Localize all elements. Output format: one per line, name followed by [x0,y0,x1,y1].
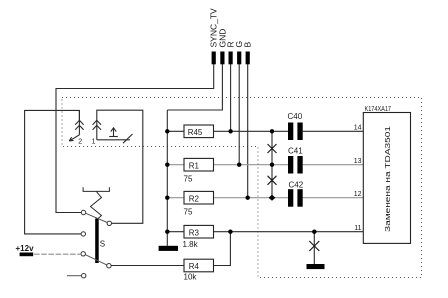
svg-text:R1: R1 [189,161,200,170]
svg-text:B: B [243,41,253,47]
branch wire at node x=272 [271,131,273,197]
wire GND pin to ground bus [167,63,222,110]
switch contact B [107,221,111,225]
ground bus symbol [159,246,178,251]
svg-text:11: 11 [354,225,361,232]
svg-text:14: 14 [354,124,362,131]
svg-text:Заменена на TDA3501: Заменена на TDA3501 [383,126,392,232]
branch wire pin11 to ground [313,232,315,264]
cut mark X on pin11 ground branch [309,241,319,251]
switch S spring bracket [83,187,109,191]
op-amp / IC U1 K174XA17 [363,113,410,244]
switch contact D [81,252,85,256]
svg-text:R3: R3 [189,228,200,237]
capacitor C41 [288,156,293,174]
svg-text:2: 2 [78,138,82,145]
row 13 wire (R1 / C41 / pin13) [167,164,288,166]
svg-text:1.8k: 1.8k [183,240,199,249]
switch S actuator bar [95,219,99,264]
svg-text:75: 75 [184,175,193,184]
dashed module boundary [62,98,422,278]
wire SYNC_TV pin to switch contact A [56,63,214,213]
resistor R2 [184,191,214,204]
node junction dots [165,129,169,133]
symbol 1 (connector contact box) [93,110,143,223]
node diamond junction [269,195,276,201]
cut mark X between C41 and C42 [268,176,277,185]
R4 row wire and riser to row 11 [111,232,230,266]
switch contact C [81,232,85,236]
svg-text:13: 13 [354,158,362,165]
switch moving blade lower [85,255,106,265]
svg-text:C41: C41 [288,147,303,156]
connector pin SYNC_TV [212,52,216,65]
svg-text:R45: R45 [188,128,203,137]
svg-text:S: S [100,240,105,249]
svg-text:C40: C40 [288,112,303,121]
wire from symbol 2 to switch contact C [25,110,82,233]
svg-text:75: 75 [184,208,193,217]
wire R pin down [230,63,232,131]
resistor R4 [184,259,214,272]
ground near pin 11 [307,264,325,269]
connector pin GND [220,52,224,65]
svg-text:10k: 10k [184,273,198,282]
switch contact F [82,274,86,278]
capacitor C40 [288,123,293,141]
row 11 wire (R3 / pin11) [167,231,363,233]
capacitor C42 [288,189,293,207]
wire B pin down [247,63,249,198]
svg-text:R4: R4 [189,262,200,271]
wire +12v to contact D [34,253,81,255]
svg-text:K174XA17: K174XA17 [365,106,392,113]
ground bus vertical [166,110,168,246]
connector pin G [237,52,241,65]
symbol 2 (connector contact with arrow) [69,110,83,140]
wire G pin down [238,63,240,165]
svg-text:1: 1 [92,138,96,145]
resistor R45 [184,125,214,138]
svg-text:+12v: +12v [16,244,35,253]
switch contact A [81,210,85,214]
resistor R1 [184,158,214,171]
resistor R3 [184,225,214,238]
svg-text:R2: R2 [189,194,200,203]
switch moving blade upper [86,213,108,222]
row 12 wire (R2 / C42 / pin12) [167,197,288,199]
stub wire at contact F [67,275,82,277]
cut mark X on branch at boundary [268,144,277,153]
switch contact E [107,264,111,268]
connector pin B [246,52,250,65]
switch S spring zigzag [91,191,102,219]
row 14 wire (R45 / C40 / pin14) [167,130,288,132]
svg-text:C42: C42 [289,180,304,189]
connector pin R [229,52,233,65]
svg-text:12: 12 [354,191,362,198]
+12v supply bar [20,253,34,257]
